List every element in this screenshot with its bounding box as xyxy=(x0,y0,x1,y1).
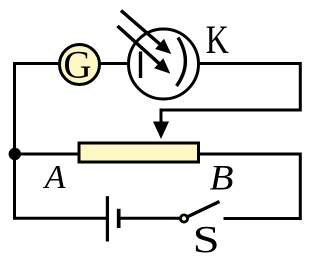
svg-text:B: B xyxy=(210,159,234,198)
phototube anode bar xyxy=(139,52,142,79)
wiper arrowhead xyxy=(153,122,169,140)
svg-text:G: G xyxy=(63,43,91,86)
junction node dot xyxy=(9,148,21,160)
svg-text:K: K xyxy=(206,17,229,62)
light ray arrow 2 xyxy=(118,26,162,66)
phototube cathode arc xyxy=(177,38,186,87)
rheostat (slide resistor) body xyxy=(79,143,199,162)
svg-text:A: A xyxy=(43,159,66,196)
wire: battery positive to switch pivot xyxy=(120,217,181,220)
battery long plate xyxy=(106,196,109,241)
wire: node A row to rheostat left terminal xyxy=(15,153,80,156)
svg-text:S: S xyxy=(193,219,220,261)
phototube K envelope xyxy=(129,29,199,99)
wire: phototube cathode to top-right corner down to wiper feed and wiper stem xyxy=(161,64,300,125)
wire: left loop (top wire to phototube anode, left vertical, bottom wire to battery) xyxy=(15,64,141,219)
switch S pivot xyxy=(180,215,187,222)
switch S lever xyxy=(188,202,220,217)
galvanometer G xyxy=(60,45,100,85)
wire: rheostat right terminal B row, right vertical, bottom to switch contact xyxy=(199,154,300,219)
battery short plate xyxy=(117,209,121,228)
light ray arrow 1 xyxy=(121,11,163,47)
